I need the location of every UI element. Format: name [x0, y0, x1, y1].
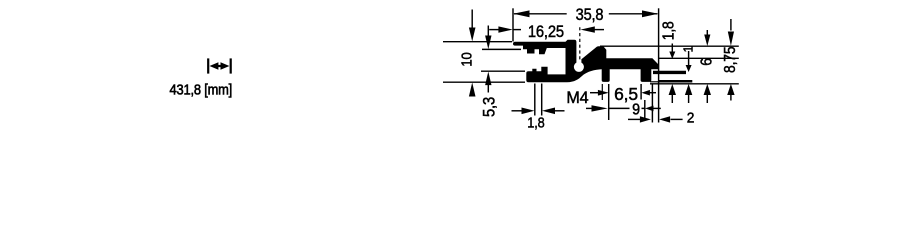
dim col 6: down arrow [706, 30, 708, 40]
extension line x=602.3 (foot1 left edge) [601, 84, 603, 100]
dim 35,8 arrowheads [513, 10, 658, 17]
dim col 8,75: up arrow [727, 84, 734, 95]
extension line x=644.8 (9 right) [644, 100, 646, 120]
slot extension lines (1,8 bottom) [535, 84, 542, 116]
extension line y=82.2 (bottom surface, left) [443, 81, 525, 83]
M4 / 9 left arrow [586, 107, 592, 109]
dim 35,8 line [514, 13, 657, 15]
dim col 1,8 (right): down arrow [671, 44, 673, 54]
extension line x=658.6 (right, full) [658, 8, 660, 122]
extension line x=641.1 (foot2 left edge) [640, 84, 642, 100]
extension line y=83.8 (bottom, right) [650, 83, 739, 85]
svg-text:16,25: 16,25 [528, 23, 564, 41]
svg-text:M4: M4 [566, 88, 588, 107]
extension line x=608.7 (foot1 right edge) [608, 84, 610, 120]
tick bar y=72.2 [653, 71, 686, 74]
extension line x=513 (top-left) [512, 8, 514, 41]
extension line y=46.2 (tab top, right) [600, 45, 739, 47]
dim 5,3 (left vertical) [487, 26, 489, 37]
centerline (dashed) at screw channel [579, 27, 581, 62]
svg-text:1,8: 1,8 [527, 113, 545, 130]
svg-text:10: 10 [458, 52, 475, 67]
svg-text:431,8 [mm]: 431,8 [mm] [170, 82, 233, 98]
dim col 8,75: down arrow [730, 19, 732, 31]
dim col 1,8 (right): up arrow [669, 84, 676, 95]
svg-text:6: 6 [698, 58, 716, 66]
extension line y=81.8 (feet bottom stub) [650, 81, 659, 83]
dim 1,8 (bottom) [512, 110, 525, 112]
extension line y=41.7 (top surface, left) [443, 41, 512, 43]
svg-text:8,75: 8,75 [721, 47, 739, 73]
length symbol arrowheads [210, 62, 230, 69]
dim 6,5 [590, 92, 600, 94]
dim 9 right arrow [645, 106, 654, 112]
extension line y=49.4 (mouth top) [482, 48, 521, 50]
dim 16,25 arrowheads [498, 26, 594, 32]
dim col 1: down arrow [688, 51, 690, 67]
svg-text:9: 9 [632, 102, 640, 119]
extension line y=71.2 (mouth bottom) [481, 70, 525, 72]
dim 10 (left vertical) [471, 10, 473, 29]
dim 16,25 line [489, 29, 604, 31]
svg-text:35,8: 35,8 [576, 6, 604, 24]
svg-text:2: 2 [687, 110, 695, 127]
dim col 1: up arrow [685, 84, 692, 95]
extension line x=652.4 (foot2 right edge) [651, 84, 653, 123]
extension line y=58.3 (plate top, right) [659, 57, 739, 59]
length symbol |<->| [208, 58, 231, 73]
svg-text:6,5: 6,5 [614, 84, 638, 104]
tick bar y=79.1 [658, 80, 692, 83]
heatsink profile cross-section (filled) [513, 40, 659, 82]
dim col 6: up arrow [704, 84, 711, 95]
svg-text:1,8: 1,8 [660, 21, 678, 40]
dim 9 line [609, 107, 645, 109]
dim 2 [628, 118, 642, 120]
svg-text:5,3: 5,3 [480, 97, 498, 117]
